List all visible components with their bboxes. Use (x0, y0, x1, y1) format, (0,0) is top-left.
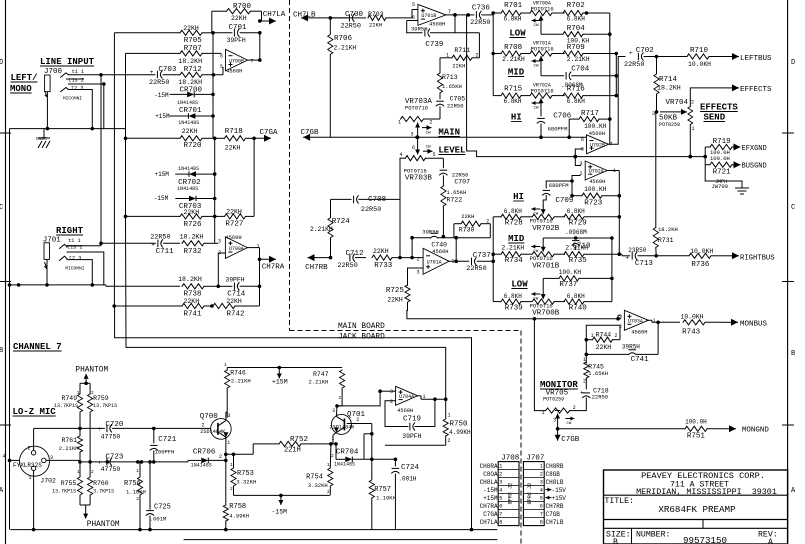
wire R750 bottom left (385, 444, 446, 446)
wire VR705 wiper down (556, 419, 560, 431)
svg-text:EFFECTS: EFFECTS (700, 103, 738, 113)
svg-text:U700B: U700B (229, 58, 244, 64)
svg-text:C7GA: C7GA (483, 511, 498, 518)
op-amp U701A (417, 241, 455, 275)
svg-text:PHANTOM: PHANTOM (87, 521, 120, 529)
svg-text:4560H: 4560H (226, 69, 242, 75)
resistor R714 (654, 57, 681, 114)
resistor R734 (493, 244, 530, 265)
svg-text:t1s 2: t1s 2 (68, 78, 84, 84)
potentiometer VR704 (652, 99, 695, 156)
wire U702A out (607, 170, 619, 172)
wire U704A out right (0, 0, 1, 1)
capacitor C721 (150, 428, 177, 463)
svg-text:-15M: -15M (154, 195, 169, 202)
svg-text:C740: C740 (431, 241, 447, 248)
svg-text:100.KH: 100.KH (584, 186, 607, 193)
svg-text:100.KH: 100.KH (559, 269, 582, 276)
svg-text:C7GA: C7GA (260, 129, 279, 137)
svg-text:1: 1 (540, 464, 543, 470)
wire R707 left vertical (125, 53, 127, 138)
capacitor C701 (211, 24, 261, 44)
svg-text:2.21KH: 2.21KH (231, 378, 251, 385)
wire Q701 collector up (335, 404, 342, 416)
wire bottom rail left input (10, 127, 127, 285)
svg-text:R713: R713 (442, 74, 458, 81)
wire U704A pin3 wire (347, 391, 396, 459)
resistor R735 (564, 244, 621, 265)
svg-text:+: + (98, 426, 102, 433)
resistor R761 (59, 428, 83, 463)
potentiometer VR700A (529, 1, 565, 29)
capacitor C711 (101, 234, 180, 256)
svg-text:39PFH: 39PFH (225, 277, 244, 284)
svg-text:CHANNEL 7: CHANNEL 7 (13, 342, 62, 352)
capacitor C723 (98, 454, 124, 474)
potentiometer VR701B (530, 238, 565, 271)
wire tone B pot wipers (0, 0, 1, 1)
node label t2 3 J701 (69, 256, 81, 262)
wire Q700 base (206, 427, 211, 429)
svg-text:NUMBER:: NUMBER: (636, 531, 670, 540)
svg-text:POT0716: POT0716 (530, 303, 553, 310)
svg-text:R716: R716 (567, 86, 586, 94)
node labels J707 rows (545, 463, 566, 526)
node label LEVEL (423, 146, 465, 156)
svg-text:C721: C721 (158, 436, 177, 444)
wire VR704 bottom node (689, 155, 693, 159)
svg-text:CH7RA: CH7RA (262, 264, 285, 272)
svg-text:R736: R736 (691, 261, 710, 269)
svg-text:LO-Z MIC: LO-Z MIC (13, 407, 57, 417)
svg-text:22R50: 22R50 (592, 394, 609, 401)
ground JW700 earth (705, 181, 749, 194)
resistor R752 (253, 436, 338, 455)
resistor R707 (126, 45, 222, 65)
svg-text:2: 2 (614, 333, 617, 339)
wire R714 node to VR704 (660, 109, 687, 115)
node label jumper JW700 (712, 179, 729, 190)
node label R724 value (310, 226, 333, 233)
svg-text:R720: R720 (184, 142, 203, 150)
svg-text:4.99KH: 4.99KH (449, 429, 471, 436)
svg-text:22KH: 22KH (596, 344, 612, 351)
capacitor C712 (337, 250, 366, 270)
svg-text:99573150: 99573150 (683, 535, 727, 544)
potentiometer VR705 (542, 405, 576, 426)
svg-text:CH8RA: CH8RA (480, 463, 498, 470)
svg-text:C8GB: C8GB (546, 471, 561, 478)
node label MID A (508, 68, 525, 78)
capacitor C740 (410, 229, 490, 262)
resistor R747 (279, 368, 344, 405)
node EFFECTS out (725, 84, 772, 94)
wire phantom feed (80, 374, 90, 394)
svg-text:C8OA: C8OA (483, 471, 498, 478)
wire J700 tip contact (61, 73, 69, 77)
svg-text:C720: C720 (105, 421, 124, 429)
svg-text:13.7KP1S: 13.7KP1S (52, 489, 76, 495)
svg-text:MID: MID (508, 68, 525, 78)
node label t1 1 J701 (68, 238, 80, 244)
transistor Q700 (200, 413, 232, 446)
svg-text:1N4148S: 1N4148S (334, 462, 355, 468)
connector J707 (523, 454, 544, 525)
svg-text:MICOMNI: MICOMNI (63, 95, 83, 101)
resistor R741 (112, 298, 213, 319)
svg-text:MONGND: MONGND (742, 427, 770, 435)
svg-text:R757: R757 (374, 486, 391, 494)
svg-text:22R50: 22R50 (337, 262, 357, 270)
svg-text:2: 2 (448, 438, 451, 444)
svg-text:22KH: 22KH (225, 145, 241, 152)
wire effects wire (690, 88, 725, 100)
svg-text:R730: R730 (459, 227, 475, 234)
resistor R719 (705, 138, 733, 156)
svg-text:18.2KH: 18.2KH (178, 58, 202, 65)
wire U703A pin3 leg (616, 315, 620, 320)
wire rail y285 (10, 283, 107, 287)
svg-text:1: 1 (499, 464, 502, 470)
svg-text:4560H: 4560H (589, 179, 605, 185)
node zone letter B left (0, 347, 3, 355)
resistor R737 (543, 269, 614, 289)
svg-text:10.0KH: 10.0KH (688, 61, 711, 68)
svg-text:R754: R754 (306, 474, 323, 482)
node label R713 value (442, 83, 462, 90)
wire C7GB rail (330, 135, 587, 139)
svg-text:CH8LA: CH8LA (480, 479, 498, 486)
wire U700A pin2 leg (218, 253, 225, 258)
svg-text:CH7RB: CH7RB (546, 503, 564, 510)
svg-text:3: 3 (390, 389, 393, 395)
resistor R706 (328, 18, 357, 137)
capacitor C705 (436, 96, 465, 110)
svg-text:BUSGND: BUSGND (742, 163, 767, 171)
capacitor C714 (218, 277, 261, 299)
svg-text:R727: R727 (225, 221, 243, 229)
capacitor C736 (470, 5, 493, 28)
svg-text:6.8KH: 6.8KH (504, 98, 522, 105)
svg-text:22KH: 22KH (387, 297, 403, 304)
wire x214 vertical mid (214, 138, 216, 243)
svg-text:CH8RB: CH8RB (546, 463, 564, 470)
svg-text:R719: R719 (713, 138, 731, 146)
svg-text:VR704: VR704 (666, 99, 689, 107)
svg-text:HI: HI (511, 113, 522, 123)
svg-text:R737: R737 (559, 281, 577, 289)
svg-text:3: 3 (411, 132, 414, 138)
svg-text:8PRC J2: 8PRC J2 (508, 483, 514, 505)
svg-text:3: 3 (332, 408, 335, 414)
node label t2 3 (71, 85, 83, 91)
svg-text:MID: MID (508, 234, 525, 244)
node label LO-Z MIC (13, 407, 57, 417)
svg-text:t2 3: t2 3 (69, 256, 81, 262)
svg-text:MONITOR: MONITOR (540, 380, 578, 390)
wire jack out vertical (0, 0, 1, 1)
svg-text:7: 7 (499, 512, 502, 518)
svg-text:CR701: CR701 (179, 107, 202, 115)
svg-text:6: 6 (412, 145, 415, 151)
resistor R745 (583, 357, 608, 390)
resistor R702 (563, 2, 588, 23)
svg-text:R752: R752 (290, 436, 308, 444)
svg-text:3.7KP1S: 3.7KP1S (93, 489, 114, 495)
node zone letter C left (0, 204, 3, 212)
wire J701 tip to C711 (67, 242, 104, 287)
svg-text:1.65KH: 1.65KH (588, 370, 608, 377)
svg-text:2: 2 (430, 120, 433, 126)
resistor R724 (328, 199, 350, 259)
svg-text:R743: R743 (682, 329, 701, 337)
node label t1s 2 J701 (67, 244, 83, 250)
svg-text:2.21KH: 2.21KH (565, 244, 588, 251)
resistor R740 (564, 238, 612, 313)
svg-text:PHANTOM: PHANTOM (75, 366, 108, 374)
svg-text:22R50: 22R50 (149, 79, 169, 87)
svg-text:R723: R723 (584, 200, 603, 208)
svg-text:R760: R760 (93, 480, 109, 487)
wire U702B out up (575, 57, 625, 166)
capacitor C708 (331, 196, 387, 214)
svg-text:.001H: .001H (398, 476, 416, 483)
svg-text:R756: R756 (124, 480, 141, 488)
svg-text:6.8KH: 6.8KH (567, 98, 585, 105)
svg-text:22R50: 22R50 (341, 23, 361, 31)
svg-text:2: 2 (356, 417, 359, 423)
resistor R721 (705, 155, 733, 177)
svg-text:U701A: U701A (427, 260, 442, 266)
svg-text:J702: J702 (40, 478, 56, 485)
svg-text:+15M: +15M (155, 171, 170, 178)
capacitor C707 (440, 158, 471, 186)
svg-text:LEFT/: LEFT/ (11, 73, 38, 83)
svg-text:PEAVEY ELECTRONICS CORP.: PEAVEY ELECTRONICS CORP. (641, 471, 765, 481)
svg-text:R753: R753 (237, 470, 254, 478)
svg-text:C: C (0, 204, 3, 212)
svg-text:POT0259: POT0259 (659, 122, 680, 128)
resistor R754 (306, 444, 333, 496)
wire U701B out (446, 13, 470, 17)
wire VR703B left leg (359, 158, 402, 259)
svg-text:1.10KH: 1.10KH (126, 489, 146, 496)
svg-text:R718: R718 (225, 128, 243, 136)
svg-text:3: 3 (228, 413, 231, 419)
capacitor C718 (570, 388, 609, 411)
svg-text:t2 3: t2 3 (71, 85, 83, 91)
node label LINE INPUT (40, 57, 95, 67)
svg-text:R707: R707 (184, 45, 202, 53)
svg-text:LEVEL: LEVEL (438, 146, 465, 156)
svg-text:U701B: U701B (421, 13, 436, 19)
svg-text:47750: 47750 (101, 466, 121, 473)
wire frame tick (0, 424, 794, 426)
wire XLR pin2 up (33, 428, 35, 450)
svg-text:MONBUS: MONBUS (740, 321, 768, 329)
svg-text:C723: C723 (105, 454, 124, 462)
node label t1 1 (72, 69, 84, 75)
svg-text:R709: R709 (567, 44, 585, 52)
svg-text:4: 4 (3, 454, 6, 460)
svg-text:1N4148S: 1N4148S (178, 166, 199, 172)
svg-text:EFXGND: EFXGND (742, 145, 767, 153)
resistor R716 (563, 86, 618, 106)
node label PHANTOM bottom (80, 505, 120, 529)
svg-text:R732: R732 (184, 248, 202, 256)
svg-text:CH7RB: CH7RB (305, 264, 328, 272)
svg-text:22KH: 22KH (461, 213, 474, 220)
svg-text:6.8KH: 6.8KH (567, 208, 585, 215)
node label EFFECTS SEND (700, 103, 738, 123)
svg-text:3: 3 (580, 161, 583, 167)
resistor R703 (368, 10, 418, 29)
node -15M arrow ch7 (234, 494, 330, 516)
node zone letter D right (791, 59, 795, 67)
wire input node to C703 (100, 74, 102, 76)
svg-text:R735: R735 (569, 257, 588, 265)
svg-text:4: 4 (499, 488, 502, 494)
node zone letter D left (0, 59, 3, 67)
wire XLR pin3 wire (46, 460, 80, 462)
diode CR702 (155, 166, 217, 187)
capacitor C725 (146, 460, 171, 529)
svg-text:-15M: -15M (483, 487, 498, 494)
svg-text:C: C (791, 204, 795, 212)
svg-text:2: 2 (136, 496, 139, 502)
svg-text:22R50: 22R50 (452, 172, 469, 179)
svg-text:47750: 47750 (101, 434, 121, 441)
svg-text:CR706: CR706 (193, 449, 216, 457)
svg-text:C7GB: C7GB (561, 436, 580, 444)
svg-text:-15M: -15M (271, 509, 287, 516)
resistor R742 (213, 298, 260, 319)
svg-text:D: D (0, 59, 3, 67)
resistor R709 (563, 44, 618, 63)
resistor R718 (215, 128, 256, 152)
svg-text:39R5H: 39R5H (422, 229, 439, 236)
svg-text:R711: R711 (454, 47, 470, 54)
node zone letter B right (791, 350, 795, 358)
svg-text:C7GB: C7GB (546, 511, 561, 518)
svg-text:SIZE:: SIZE: (606, 531, 631, 540)
wire C736 to tone A (467, 15, 477, 157)
svg-text:CR704: CR704 (336, 449, 359, 457)
svg-text:-15V: -15V (552, 487, 567, 494)
svg-text:R705: R705 (184, 37, 203, 45)
wire right border frame (787, 0, 789, 544)
wire rail y285 to R738 (106, 285, 180, 286)
svg-text:R708: R708 (504, 44, 522, 52)
op-amp U704A (390, 386, 426, 414)
wire bottom edge line (184, 539, 498, 541)
svg-text:R761: R761 (62, 437, 78, 444)
svg-text:2: 2 (28, 446, 31, 452)
wire XLR pin4 to rail (8, 283, 20, 529)
svg-text:22R50: 22R50 (624, 61, 644, 69)
svg-text:U700A: U700A (229, 246, 244, 252)
wire R700 left leg (211, 11, 213, 33)
svg-text:10.0KH: 10.0KH (690, 248, 713, 255)
svg-text:3: 3 (499, 480, 502, 486)
wire J701 sleeve down (45, 269, 49, 287)
wire bottom rail ch7 (10, 528, 398, 532)
resistor R712 (178, 66, 223, 86)
potentiometer VR702A (529, 83, 565, 111)
wire C720 to base (154, 427, 206, 429)
svg-text:2: 2 (691, 100, 694, 106)
wire rail y336 down right (0, 0, 1, 1)
svg-text:22R50: 22R50 (150, 234, 170, 242)
svg-text:POT0716: POT0716 (405, 105, 428, 112)
svg-text:13.7KP1S: 13.7KP1S (93, 403, 117, 409)
svg-text:22KH: 22KH (369, 22, 382, 29)
svg-text:2: 2 (327, 489, 330, 495)
wire Q701 emitter (333, 432, 336, 444)
potentiometer VR703A (398, 98, 440, 126)
svg-text:18.2KH: 18.2KH (180, 234, 204, 241)
resistor R760 (88, 462, 115, 505)
wire R719 R721 left vertical (703, 147, 707, 181)
capacitor C713 (619, 247, 658, 268)
svg-text:6: 6 (499, 504, 502, 510)
svg-text:R724: R724 (332, 218, 351, 226)
svg-text:5: 5 (433, 152, 436, 158)
wire U703A out (646, 320, 680, 324)
node CH7RB in (305, 254, 330, 272)
svg-text:SEND: SEND (704, 113, 726, 123)
svg-text:2: 2 (331, 453, 334, 459)
capacitor C702 (624, 47, 658, 69)
svg-text:HI: HI (513, 192, 524, 202)
svg-text:2: 2 (573, 405, 576, 411)
svg-text:+15V: +15V (552, 495, 567, 502)
connector J702 XLR (3, 446, 57, 485)
svg-text:C725: C725 (154, 504, 171, 512)
svg-text:8: 8 (540, 520, 543, 526)
svg-text:CH7LB: CH7LB (546, 519, 564, 526)
wire R731 top (655, 112, 657, 200)
node label t1s 2 (66, 78, 84, 84)
wire U702A pin3 leg (574, 155, 578, 159)
svg-text:C705: C705 (450, 96, 466, 103)
svg-text:39PFH: 39PFH (227, 37, 246, 44)
resistor R744 (586, 325, 620, 351)
svg-text:CH7LA: CH7LA (263, 11, 286, 19)
svg-text:EFFECTS: EFFECTS (740, 86, 772, 94)
node label LOW A (509, 29, 526, 39)
resistor R715 (493, 86, 528, 106)
svg-text:2: 2 (417, 257, 420, 263)
svg-text:2: 2 (91, 469, 94, 475)
svg-text:6: 6 (540, 504, 543, 510)
svg-text:R741: R741 (184, 311, 203, 319)
node RIGHTBUS out (725, 252, 775, 262)
svg-text:R725: R725 (386, 287, 405, 295)
wire Q701 collector to pin3 (337, 389, 382, 405)
svg-text:5: 5 (412, 2, 415, 8)
wire U701A pin3 (408, 268, 424, 285)
svg-text:R739: R739 (505, 305, 523, 313)
resistor R708 (493, 44, 528, 63)
resistor R705 (114, 25, 213, 45)
wire VR705 pin1 from R725 wire (534, 319, 545, 411)
resistor R751 (685, 419, 728, 441)
svg-text:.0968M: .0968M (565, 229, 587, 236)
svg-text:1: 1 (692, 126, 695, 132)
svg-text:2: 2 (499, 472, 502, 478)
svg-text:100.0H: 100.0H (685, 419, 707, 426)
